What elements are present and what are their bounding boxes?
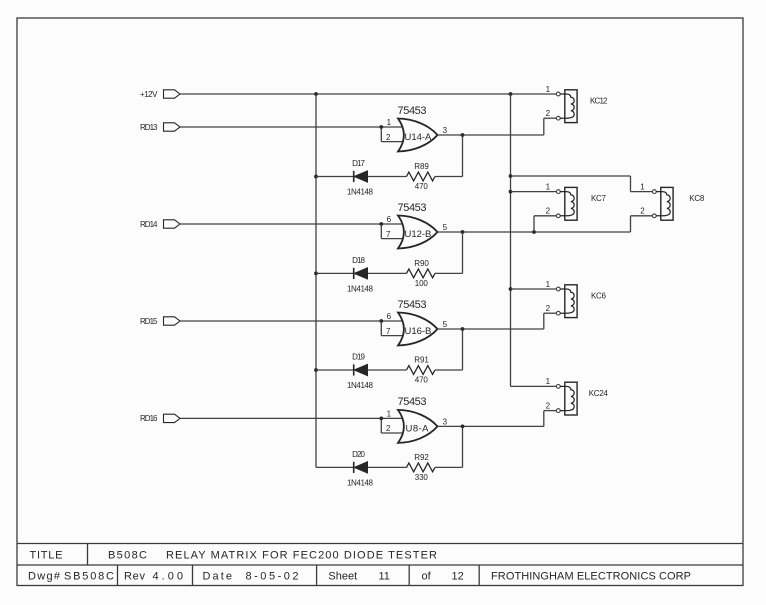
svg-text:1N4148: 1N4148 bbox=[347, 188, 374, 197]
svg-text:2: 2 bbox=[546, 401, 551, 410]
svg-text:D20: D20 bbox=[352, 450, 365, 459]
resistor R92 bbox=[407, 453, 435, 482]
svg-text:6: 6 bbox=[387, 215, 392, 224]
svg-text:RD13: RD13 bbox=[140, 123, 158, 132]
wire KC7 pin 2 to U12-B output bbox=[534, 216, 556, 232]
svg-text:Rev: Rev bbox=[124, 571, 146, 583]
wire flyback branch bbox=[316, 272, 463, 274]
wire gate U14-A output node bbox=[438, 133, 544, 176]
svg-text:2: 2 bbox=[386, 133, 391, 142]
pin 2 label bbox=[386, 133, 391, 142]
diode D20 bbox=[347, 450, 374, 488]
svg-text:RD16: RD16 bbox=[140, 414, 158, 423]
svg-text:2: 2 bbox=[546, 109, 551, 118]
wire RD16 to gate inputs bbox=[180, 417, 403, 434]
svg-text:2: 2 bbox=[640, 207, 645, 216]
svg-text:KC12: KC12 bbox=[590, 97, 608, 106]
svg-text:1: 1 bbox=[546, 85, 551, 94]
node RD15 input connector bbox=[140, 317, 180, 326]
pin 1 label KC24 bbox=[546, 377, 551, 386]
pin 1 label KC12 bbox=[546, 85, 551, 94]
pin 5 label bbox=[443, 320, 448, 329]
svg-text:TITLE: TITLE bbox=[30, 549, 63, 561]
wire KC6 pin 1 from +12V rail bbox=[511, 288, 557, 290]
pin 3 label bbox=[443, 126, 448, 135]
relay coil KC24 bbox=[556, 382, 608, 415]
pin 7 label bbox=[386, 230, 391, 239]
svg-text:of: of bbox=[422, 571, 432, 583]
svg-text:U14-A: U14-A bbox=[405, 132, 432, 143]
wire +12V vertical rail to diodes bbox=[314, 94, 318, 467]
svg-text:1: 1 bbox=[640, 182, 645, 191]
svg-text:1: 1 bbox=[387, 118, 392, 127]
wire flyback branch bbox=[316, 176, 463, 178]
diode D19 bbox=[347, 352, 374, 390]
svg-text:Date: Date bbox=[203, 571, 233, 583]
pin 2 label KC6 bbox=[546, 304, 551, 313]
svg-text:1: 1 bbox=[546, 280, 551, 289]
wire gate U16-B output node bbox=[438, 327, 544, 370]
svg-text:75453: 75453 bbox=[398, 299, 427, 311]
svg-text:B508C: B508C bbox=[108, 549, 147, 561]
wire KC8 pin 1 branch from +12V rail bbox=[511, 176, 653, 192]
node RD16 input connector bbox=[140, 414, 180, 423]
value label 75453 for U8-A bbox=[398, 396, 427, 408]
pin 1 label bbox=[387, 118, 392, 127]
svg-text:1: 1 bbox=[546, 182, 551, 191]
resistor R89 bbox=[407, 162, 435, 191]
svg-text:RD14: RD14 bbox=[140, 220, 158, 229]
svg-text:470: 470 bbox=[415, 376, 429, 385]
svg-text:3: 3 bbox=[443, 126, 448, 135]
pin 2 label KC7 bbox=[546, 207, 551, 216]
pin 6 label bbox=[387, 215, 392, 224]
pin 2 label KC12 bbox=[546, 109, 551, 118]
wire +12V vertical rail to relay coils bbox=[509, 94, 513, 386]
svg-text:R90: R90 bbox=[414, 259, 429, 268]
value label 75453 for U14-A bbox=[398, 105, 427, 117]
wire gate U12-B output node bbox=[438, 230, 631, 273]
diode D18 bbox=[347, 256, 374, 294]
svg-text:U12-B: U12-B bbox=[405, 229, 432, 240]
svg-text:KC7: KC7 bbox=[591, 194, 607, 203]
svg-text:1: 1 bbox=[546, 377, 551, 386]
wire KC7 pin 1 from +12V rail bbox=[511, 191, 557, 193]
svg-text:470: 470 bbox=[415, 182, 429, 191]
pin 1 label bbox=[387, 410, 392, 419]
relay coil KC6 bbox=[556, 285, 606, 318]
svg-text:75453: 75453 bbox=[398, 105, 427, 117]
wire +12V rail horizontal bbox=[180, 92, 556, 96]
op-amp driver gate U8-A (75453) bbox=[398, 410, 438, 443]
wire gate U8-A output node bbox=[438, 425, 544, 468]
pin 1 label KC8 bbox=[640, 182, 645, 191]
svg-text:R91: R91 bbox=[414, 355, 429, 364]
svg-text:U16-B: U16-B bbox=[405, 326, 432, 337]
svg-text:5: 5 bbox=[443, 223, 448, 232]
svg-text:100: 100 bbox=[415, 279, 429, 288]
wire KC24 pin 2 to U8-A output bbox=[544, 411, 557, 427]
svg-text:7: 7 bbox=[386, 327, 391, 336]
op-amp driver gate U12-B (75453) bbox=[398, 216, 438, 249]
pin 6 label bbox=[387, 312, 392, 321]
relay coil KC12 bbox=[556, 90, 608, 123]
resistor R91 bbox=[407, 355, 435, 384]
svg-text:RELAY MATRIX FOR FEC200 DIODE: RELAY MATRIX FOR FEC200 DIODE TESTER bbox=[166, 549, 437, 561]
svg-text:1N4148: 1N4148 bbox=[347, 381, 374, 390]
node +12V input connector bbox=[140, 90, 180, 99]
svg-text:R89: R89 bbox=[414, 162, 429, 171]
pin 1 label KC7 bbox=[546, 182, 551, 191]
svg-text:330: 330 bbox=[415, 473, 429, 482]
svg-text:12: 12 bbox=[452, 571, 464, 583]
svg-text:2: 2 bbox=[546, 207, 551, 216]
svg-text:KC6: KC6 bbox=[591, 292, 607, 301]
svg-text:+12V: +12V bbox=[140, 90, 158, 99]
svg-text:5: 5 bbox=[443, 320, 448, 329]
value label 75453 for U16-B bbox=[398, 299, 427, 311]
wire KC6 pin 2 to U16-B output bbox=[544, 313, 557, 329]
svg-text:R92: R92 bbox=[414, 453, 429, 462]
svg-text:KC8: KC8 bbox=[689, 194, 705, 203]
title block bbox=[17, 544, 743, 586]
op-amp driver gate U16-B (75453) bbox=[398, 313, 438, 346]
wire KC24 pin 1 from +12V rail bbox=[511, 385, 557, 387]
svg-text:75453: 75453 bbox=[398, 396, 427, 408]
pin 2 label KC24 bbox=[546, 401, 551, 410]
svg-text:75453: 75453 bbox=[398, 202, 427, 214]
pin 5 label bbox=[443, 223, 448, 232]
svg-text:U8-A: U8-A bbox=[406, 423, 430, 434]
pin 1 label KC6 bbox=[546, 280, 551, 289]
svg-text:FROTHINGHAM ELECTRONICS CORP: FROTHINGHAM ELECTRONICS CORP bbox=[491, 571, 691, 583]
pin 3 label bbox=[443, 417, 448, 426]
svg-text:KC24: KC24 bbox=[589, 389, 609, 398]
pin 2 label bbox=[386, 424, 391, 433]
node RD14 input connector bbox=[140, 220, 180, 229]
resistor R90 bbox=[407, 259, 435, 288]
relay coil KC8 bbox=[652, 187, 704, 220]
svg-text:6: 6 bbox=[387, 312, 392, 321]
op-amp driver gate U14-A (75453) bbox=[398, 119, 438, 152]
pin 7 label bbox=[386, 327, 391, 336]
svg-text:1: 1 bbox=[387, 410, 392, 419]
wire RD13 to gate inputs bbox=[180, 125, 403, 142]
svg-text:Dwg#: Dwg# bbox=[28, 571, 61, 583]
diode D17 bbox=[347, 159, 374, 197]
wire KC12 pin 2 to U14-A output bbox=[544, 118, 557, 135]
wire RD15 to gate inputs bbox=[180, 319, 403, 336]
svg-text:D18: D18 bbox=[352, 256, 365, 265]
svg-text:4.00: 4.00 bbox=[153, 571, 184, 583]
svg-text:Sheet: Sheet bbox=[328, 571, 357, 583]
wire flyback branch bbox=[316, 466, 463, 468]
svg-text:11: 11 bbox=[379, 571, 390, 583]
svg-text:1N4148: 1N4148 bbox=[347, 479, 374, 488]
wire KC8 pin 2 to U12-B output bbox=[631, 216, 653, 232]
svg-text:2: 2 bbox=[546, 304, 551, 313]
svg-text:1N4148: 1N4148 bbox=[347, 285, 374, 294]
svg-text:2: 2 bbox=[386, 424, 391, 433]
pin 2 label KC8 bbox=[640, 207, 645, 216]
wire flyback branch bbox=[316, 369, 463, 371]
relay coil KC7 bbox=[556, 187, 606, 220]
svg-text:3: 3 bbox=[443, 417, 448, 426]
node RD13 input connector bbox=[140, 123, 180, 132]
svg-text:7: 7 bbox=[386, 230, 391, 239]
value label 75453 for U12-B bbox=[398, 202, 427, 214]
svg-text:D17: D17 bbox=[352, 159, 365, 168]
svg-text:D19: D19 bbox=[352, 352, 365, 361]
svg-text:RD15: RD15 bbox=[140, 317, 158, 326]
wire RD14 to gate inputs bbox=[180, 222, 403, 239]
